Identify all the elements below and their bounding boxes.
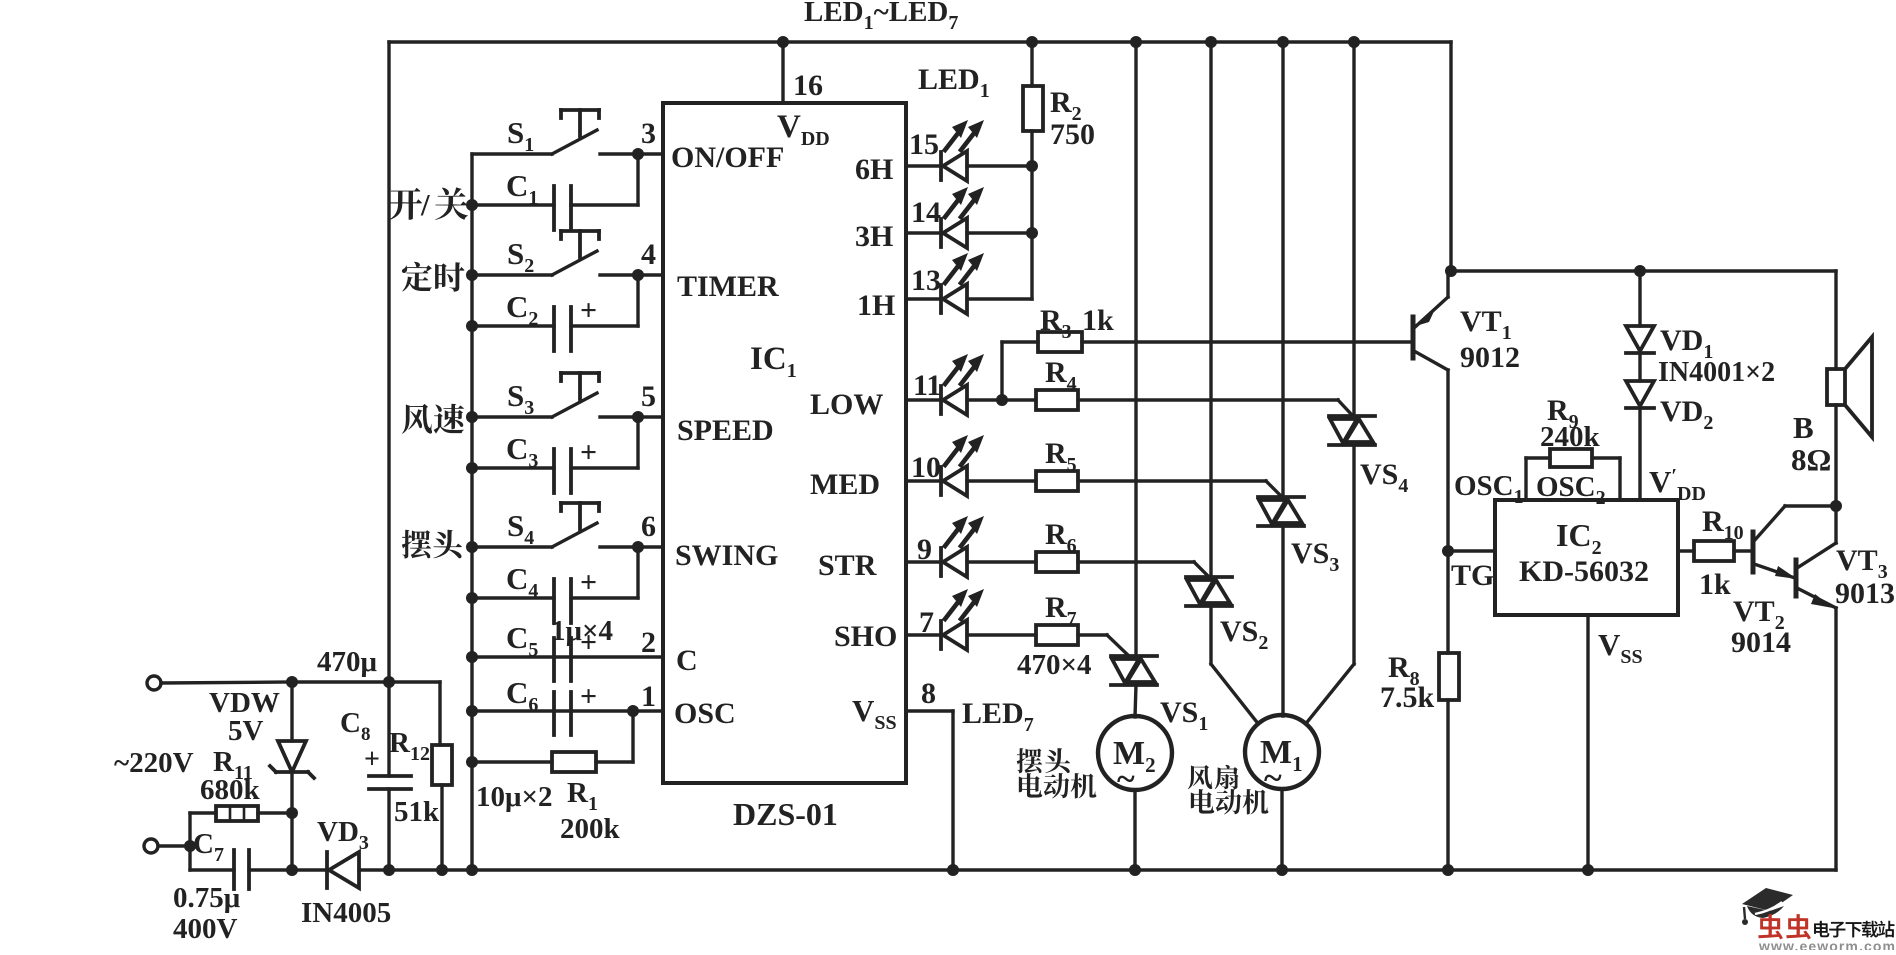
resistor R10 1k — [1678, 541, 1753, 561]
svg-text:~: ~ — [1117, 761, 1135, 798]
svg-text:5V: 5V — [228, 715, 264, 747]
switch S4 — [472, 503, 663, 547]
resistor R3 1k — [1002, 332, 1413, 400]
node LED11 R3 R4 — [996, 394, 1008, 406]
pin 10 IC1 — [911, 451, 941, 484]
svg-text:9012: 9012 — [1460, 341, 1520, 374]
svg-text:IN4001×2: IN4001×2 — [1658, 357, 1775, 388]
svg-text:R1: R1 — [567, 777, 598, 815]
label VSS IC2 — [1598, 627, 1643, 668]
wire pin16 VDD — [781, 42, 784, 103]
wire pin8 VSS — [906, 711, 953, 870]
pin 15 IC1 — [909, 128, 939, 161]
label 470x4 — [1017, 649, 1092, 681]
label ~220V — [114, 747, 194, 779]
wire bus to VS2 — [1209, 42, 1212, 577]
node VDD rail junction bus VS2 — [1205, 36, 1217, 48]
node bus C6 — [466, 705, 478, 717]
svg-text:+: + — [580, 436, 597, 469]
node LED14 R2 — [1026, 227, 1038, 239]
label B 8ohm — [1791, 410, 1831, 477]
node VDW top — [286, 676, 298, 688]
svg-text:4: 4 — [641, 238, 656, 271]
resistor R2 750 — [1023, 42, 1043, 299]
svg-text:R10: R10 — [1702, 505, 1744, 544]
zener VDW 5V — [270, 682, 314, 813]
svg-text:IN4005: IN4005 — [301, 897, 391, 929]
label R7 — [1045, 591, 1077, 630]
capacitor C3 — [472, 417, 638, 493]
node pin6 junction — [632, 541, 644, 553]
label SWING — [675, 539, 778, 572]
wire top VDD rail — [389, 40, 1451, 43]
node LED15 R2 — [1026, 160, 1038, 172]
resistor R12 51k — [432, 682, 452, 870]
label VT3 9013 — [1835, 544, 1895, 610]
transistor VT1 9012 — [1413, 271, 1448, 370]
node VDW rail — [286, 864, 298, 876]
svg-text:LED1~LED7: LED1~LED7 — [804, 0, 958, 34]
capacitor C7 0.75u 400V — [234, 850, 249, 889]
svg-text:C2: C2 — [506, 289, 538, 330]
LED7 (pin 7) — [906, 589, 984, 650]
svg-text:+: + — [580, 294, 597, 327]
svg-text:ON/OFF: ON/OFF — [671, 141, 784, 174]
svg-text:C4: C4 — [506, 561, 538, 602]
pin 3 IC1 — [641, 117, 656, 150]
resistor R1 200k — [472, 711, 633, 772]
svg-text:14: 14 — [911, 196, 941, 229]
svg-text:VDD: VDD — [777, 109, 830, 150]
label SPEED — [677, 414, 774, 447]
resistor R6 — [967, 552, 1209, 577]
node bus S4 — [466, 541, 478, 553]
node bus rail — [466, 864, 478, 876]
label 3H — [855, 220, 893, 253]
label fengsu — [402, 404, 464, 434]
svg-text:1μ×4: 1μ×4 — [551, 615, 613, 647]
switch S2 — [472, 231, 663, 275]
svg-text:LED7: LED7 — [962, 697, 1034, 736]
svg-text:680k: 680k — [200, 774, 261, 806]
wire speaker branch — [1834, 271, 1837, 543]
svg-text:1k: 1k — [1699, 568, 1731, 601]
svg-text:470×4: 470×4 — [1017, 649, 1092, 681]
pin 13 IC1 — [911, 264, 941, 297]
svg-text:B: B — [1793, 410, 1814, 445]
pin 8 IC1 — [921, 677, 936, 710]
speaker B 8ohm — [1827, 337, 1872, 437]
node VT2 collector speaker — [1830, 500, 1842, 512]
svg-text:C1: C1 — [506, 168, 538, 209]
node bus C4 — [466, 592, 478, 604]
wire VDW to rail — [290, 813, 293, 870]
label OSC1 OSC2 — [1454, 470, 1606, 509]
label IC2 KD-56032 — [1519, 517, 1649, 588]
svg-text:TG: TG — [1451, 559, 1494, 592]
resistor R8 7.5k — [1439, 653, 1459, 870]
LED4 (pin 11) — [906, 354, 984, 415]
capacitor C1 — [472, 154, 638, 230]
svg-text:VS2: VS2 — [1220, 615, 1268, 654]
node pin5 junction — [632, 411, 644, 423]
node bus C1 — [466, 199, 478, 211]
capacitor C2 — [472, 275, 638, 351]
wire bus to VS1 — [1134, 42, 1137, 656]
label R2 750 — [1050, 86, 1095, 151]
LED5 (pin 10) — [906, 435, 984, 496]
label 470u — [317, 646, 378, 678]
wire M2 to rail — [1133, 790, 1136, 870]
label dingshi — [402, 262, 464, 292]
label S2 — [507, 236, 534, 277]
svg-text:16: 16 — [793, 69, 823, 102]
wire bottom ground rail — [190, 868, 1836, 871]
node M2 rail — [1129, 864, 1141, 876]
label C2 — [506, 289, 538, 330]
label LED1~LED7 — [804, 0, 958, 34]
capacitor C8 470u — [364, 744, 411, 789]
svg-text:15: 15 — [909, 128, 939, 161]
switch S1 — [472, 110, 663, 154]
label 10ux2 — [476, 781, 552, 813]
motor M2 — [1098, 716, 1172, 798]
svg-text:6H: 6H — [855, 153, 893, 186]
label S3 — [507, 378, 534, 419]
pin 14 IC1 — [911, 196, 941, 229]
svg-text:200k: 200k — [560, 813, 621, 845]
transistor VT3 9013 — [1796, 543, 1836, 870]
svg-text:3H: 3H — [855, 220, 893, 253]
label IC1 — [750, 341, 797, 382]
svg-text:240k: 240k — [1540, 421, 1601, 453]
wire LED13 to R2 — [967, 297, 1032, 300]
svg-text:VD3: VD3 — [317, 816, 369, 854]
triac VS2 — [1186, 577, 1232, 606]
node VDD rail junction pin16 — [777, 36, 789, 48]
svg-text:LOW: LOW — [810, 388, 883, 421]
svg-text:2: 2 — [641, 626, 656, 659]
node border 470u — [383, 676, 395, 688]
label VS4 — [1360, 458, 1408, 497]
svg-text:SHO: SHO — [834, 620, 897, 653]
node IC2 VSS rail — [1582, 864, 1594, 876]
svg-text:VT1: VT1 — [1460, 305, 1512, 344]
node VDD rail junction R2 — [1026, 36, 1038, 48]
node M1 rail — [1276, 864, 1288, 876]
svg-text:C6: C6 — [506, 675, 538, 716]
node pin4 junction — [632, 269, 644, 281]
resistor R9 240k — [1526, 449, 1620, 500]
label 1ux4 — [551, 615, 613, 647]
label 1H — [857, 289, 895, 322]
svg-text:1k: 1k — [1082, 304, 1114, 337]
svg-text:10: 10 — [911, 451, 941, 484]
label fengshan motor — [1188, 765, 1269, 815]
wire LED14 to R2 — [967, 231, 1032, 234]
wire 470u feed — [292, 680, 440, 683]
wire VS1 to M2 — [1135, 685, 1136, 717]
svg-text:~220V: ~220V — [114, 747, 194, 779]
svg-text:S1: S1 — [507, 115, 534, 156]
wire top right branch — [1451, 42, 1836, 271]
label VS2 — [1220, 615, 1268, 654]
svg-text:+: + — [364, 744, 380, 775]
node pin3 junction — [632, 148, 644, 160]
wire M1 to rail — [1280, 789, 1283, 870]
label ON/OFF — [671, 141, 784, 174]
pin 2 IC1 — [641, 626, 656, 659]
svg-text:OSC: OSC — [674, 697, 736, 730]
label STR — [818, 549, 877, 582]
label LOW — [810, 388, 883, 421]
node bus S2 — [466, 269, 478, 281]
wire VS2 to M1 — [1211, 606, 1256, 721]
node bus C2 — [466, 320, 478, 332]
label VDD — [777, 109, 830, 150]
resistor R7 470x4 — [967, 625, 1130, 657]
svg-text:1H: 1H — [857, 289, 895, 322]
svg-text:VD2: VD2 — [1660, 395, 1713, 434]
svg-text:C5: C5 — [506, 620, 538, 661]
diode VD1 — [1626, 271, 1654, 353]
label R10 1k — [1699, 505, 1744, 601]
resistor R4 — [1002, 390, 1352, 415]
triac VS4 — [1329, 416, 1375, 445]
label C — [676, 644, 698, 677]
pin 11 IC1 — [913, 369, 941, 402]
label R8 7.5k — [1380, 651, 1435, 714]
node R12 rail — [436, 864, 448, 876]
node VDD rail junction bus VS4 — [1348, 36, 1360, 48]
pin 6 IC1 — [641, 510, 656, 543]
terminal AC input bottom — [144, 839, 190, 853]
node bus S3 — [466, 411, 478, 423]
node pin8 rail — [947, 864, 959, 876]
label R11 680k — [200, 746, 261, 806]
wire C7 branch — [188, 813, 191, 870]
svg-text:10μ×2: 10μ×2 — [476, 781, 552, 813]
svg-text:VSS: VSS — [852, 693, 897, 734]
svg-text:V′DD: V′DD — [1649, 464, 1706, 505]
svg-text:IC1: IC1 — [750, 341, 797, 382]
label VS1 — [1160, 696, 1208, 735]
diode VD2 — [1626, 353, 1654, 500]
LED6 (pin 9) — [906, 516, 984, 577]
label C6 — [506, 675, 538, 716]
svg-text:DZS-01: DZS-01 — [733, 796, 838, 832]
svg-text:R3: R3 — [1040, 304, 1072, 343]
svg-text:S4: S4 — [507, 508, 534, 549]
op-amp U1: IC1 DZS-01 box — [663, 103, 906, 783]
label baitou motor — [1017, 748, 1097, 798]
svg-text:KD-56032: KD-56032 — [1519, 555, 1649, 588]
pin 5 IC1 — [641, 380, 656, 413]
wire left border — [387, 42, 390, 870]
svg-text:11: 11 — [913, 369, 941, 402]
label VDDp — [1649, 464, 1706, 505]
label MED — [810, 468, 880, 501]
capacitor C4 — [472, 547, 638, 623]
op-amp U2: IC2 KD-56032 box — [1495, 500, 1678, 615]
pin 7 IC1 — [919, 606, 934, 639]
wire LED15 to R2 — [967, 164, 1032, 167]
label TG — [1451, 559, 1494, 592]
label LED7 — [962, 697, 1034, 736]
svg-text:C: C — [676, 644, 698, 677]
node R11 VDW — [286, 807, 298, 819]
label S4 — [507, 508, 534, 549]
svg-text:VS1: VS1 — [1160, 696, 1208, 735]
label C8 — [340, 707, 370, 745]
svg-text:IC2: IC2 — [1556, 517, 1602, 559]
svg-text:+: + — [580, 680, 597, 713]
svg-text:C7: C7 — [193, 828, 224, 866]
diode VD3 IN4005 — [327, 852, 359, 888]
triac VS3 — [1258, 497, 1304, 526]
capacitor C6 — [472, 680, 663, 735]
pin 16 — [793, 69, 823, 102]
node bus C5 — [466, 651, 478, 663]
label R1 200k — [560, 777, 621, 845]
svg-text:SPEED: SPEED — [677, 414, 774, 447]
svg-text:S2: S2 — [507, 236, 534, 277]
label LED1 — [918, 63, 990, 102]
svg-text:C3: C3 — [506, 431, 538, 472]
node VDD rail junction bus VS3 — [1277, 36, 1289, 48]
wire VT1 collector down — [1446, 370, 1449, 653]
svg-text:8Ω: 8Ω — [1791, 442, 1831, 477]
wire bus to VS4 — [1352, 42, 1355, 416]
svg-text:VS3: VS3 — [1291, 537, 1339, 576]
label R9 240k — [1540, 394, 1601, 453]
svg-text:9013: 9013 — [1835, 577, 1895, 610]
capacitor C5 — [472, 626, 663, 681]
svg-text:7.5k: 7.5k — [1380, 681, 1435, 714]
watermark chongchong — [1758, 914, 1811, 939]
svg-text:5: 5 — [641, 380, 656, 413]
triac VS1 — [1111, 656, 1157, 685]
label DZS-01 — [733, 796, 838, 832]
svg-text:470μ: 470μ — [317, 646, 378, 678]
node VT1 emitter rail — [1445, 265, 1457, 277]
LED2 (pin 14) — [906, 187, 984, 248]
wire bus to VS3 — [1281, 42, 1284, 497]
label R6 — [1045, 518, 1077, 557]
label C3 — [506, 431, 538, 472]
svg-text:/: / — [420, 187, 430, 222]
node bus C3 — [466, 462, 478, 474]
label 6H — [855, 153, 893, 186]
label R4 — [1045, 356, 1077, 395]
label VT2 9014 — [1731, 595, 1791, 659]
label S1 — [507, 115, 534, 156]
svg-text:MED: MED — [810, 468, 880, 501]
svg-text:OSC2: OSC2 — [1536, 471, 1606, 509]
LED1 (pin 15) — [906, 120, 984, 181]
svg-text:C8: C8 — [340, 707, 370, 745]
label kai/guan — [389, 187, 468, 222]
svg-text:400V: 400V — [173, 913, 238, 945]
wire VS3 to M1 — [1281, 526, 1284, 716]
svg-text:LED1: LED1 — [918, 63, 990, 102]
svg-text:~: ~ — [1264, 760, 1282, 797]
label VDW 5V — [209, 687, 280, 747]
label OSC — [674, 697, 736, 730]
wire IC2 VSS — [1586, 615, 1589, 870]
node C8 rail — [383, 864, 395, 876]
node VD1 branch — [1634, 265, 1646, 277]
svg-text:3: 3 — [641, 117, 656, 150]
wire switch common bus — [470, 154, 473, 870]
svg-text:OSC1: OSC1 — [1454, 470, 1524, 508]
svg-text:0.75μ: 0.75μ — [173, 882, 241, 914]
wire VS4 to M1 — [1308, 445, 1354, 721]
svg-text:R12: R12 — [389, 727, 430, 765]
svg-text:STR: STR — [818, 549, 877, 582]
switch S3 — [472, 373, 663, 417]
svg-text:VS4: VS4 — [1360, 458, 1408, 497]
wire LED11 node — [967, 398, 1002, 401]
node bus R1 — [466, 756, 478, 768]
label C1 — [506, 168, 538, 209]
resistor R11 680k — [190, 806, 292, 821]
node C7 R11 branch — [184, 840, 196, 852]
label C4 — [506, 561, 538, 602]
label R12 51k — [389, 727, 440, 828]
label C7 — [193, 828, 224, 866]
pin 1 IC1 — [641, 680, 656, 713]
svg-text:VSS: VSS — [1598, 627, 1643, 668]
label VS3 — [1291, 537, 1339, 576]
watermark logo cap — [1742, 888, 1793, 925]
label baitou — [402, 530, 462, 559]
label R5 — [1045, 437, 1077, 476]
label VT1 9012 — [1460, 305, 1520, 374]
svg-text:13: 13 — [911, 264, 941, 297]
node TG junction — [1442, 545, 1454, 557]
motor M1 — [1245, 715, 1319, 797]
label R3 1k — [1040, 304, 1114, 343]
svg-text:TIMER: TIMER — [677, 270, 779, 303]
label C5 — [506, 620, 538, 661]
watermark url — [1758, 938, 1896, 954]
node VDD rail junction bus VS1 — [1130, 36, 1142, 48]
svg-text:+: + — [580, 566, 597, 599]
label VSS — [852, 693, 897, 734]
svg-text:8: 8 — [921, 677, 936, 710]
terminal AC input top — [147, 676, 292, 690]
pin 4 IC1 — [641, 238, 656, 271]
node pin1 R1 junction — [627, 705, 639, 717]
svg-text:9014: 9014 — [1731, 626, 1791, 659]
label VD3 IN4005 — [301, 816, 391, 929]
svg-text:www.eeworm.com: www.eeworm.com — [1758, 938, 1896, 950]
label SHO — [834, 620, 897, 653]
svg-text:S3: S3 — [507, 378, 534, 419]
LED3 (pin 13) — [906, 253, 984, 314]
svg-text:SWING: SWING — [675, 539, 778, 572]
watermark site name — [1814, 921, 1894, 938]
pin 9 IC1 — [917, 533, 932, 566]
label TIMER — [677, 270, 779, 303]
node R8 rail — [1442, 864, 1454, 876]
transistor VT2 9014 — [1753, 506, 1836, 579]
svg-text:6: 6 — [641, 510, 656, 543]
svg-text:750: 750 — [1050, 118, 1095, 151]
resistor R5 — [967, 471, 1281, 496]
label VD1 IN4001x2 VD2 — [1658, 324, 1775, 434]
